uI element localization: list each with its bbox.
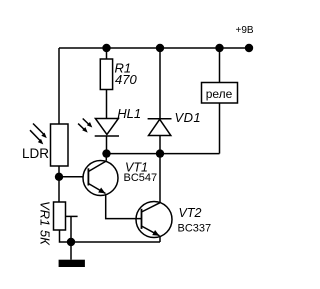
transistor VT2 collector stroke [142,203,161,212]
transistor VT1 emitter stroke [88,184,105,194]
wire mid horizontal node line [107,153,220,155]
wire VT1 emitter to VT2 base [106,195,142,219]
wire relay branch from rail [219,48,221,83]
junction dot rail relay [215,44,223,52]
wire ground stub [70,242,72,260]
LED HL1 triangle [95,119,118,135]
photoresistor LDR body [51,124,69,166]
transistor VT1 circle [83,161,118,196]
LED HL1 arrowhead 2 [82,127,88,133]
svg-text:BC547: BC547 [124,172,158,184]
LED HL1 light arrow 2 [78,124,84,130]
LDR arrowhead 1 [41,133,47,139]
LDR light arrow 1 [33,124,44,135]
svg-text:BC337: BC337 [178,222,212,234]
wire LDR bottom to junction [58,166,60,202]
transistor VT2 base bar [141,209,143,229]
wire relay bottom to node line [219,103,221,154]
LED HL1 cathode bar [95,135,119,137]
svg-text:HL1: HL1 [117,106,141,121]
junction dot rail R1 [102,44,110,52]
junction dot LDR/VR1/base node [55,173,63,181]
junction dot ground node [67,238,75,246]
wire VT1 base wire [59,176,84,178]
svg-text:VT2: VT2 [179,206,202,220]
resistor R1 [100,59,112,90]
LED HL1 arrowhead 1 [87,122,93,128]
transistor VT1 base bar [87,168,89,185]
svg-text:реле: реле [206,87,233,101]
diode VD1 cathode bar [148,118,172,120]
svg-text:LDR: LDR [22,146,49,161]
wire R1 to HL1 [106,90,108,119]
transistor VT2 emitter arrowhead [152,230,159,236]
LDR light arrow 2 [30,130,40,140]
ground symbol bar [59,260,85,267]
relay K1 box [202,83,238,104]
wire VT1 collector up [105,154,107,161]
wire VD1 branch from rail [159,48,161,119]
wire VR1 bottom to ground rail [60,230,161,242]
wire HL1 cathode down to node [106,136,108,154]
wire node to VT2 collector [159,154,161,203]
svg-text:VR1 5К: VR1 5К [38,201,53,246]
transistor VT2 circle [136,202,172,238]
svg-text:VD1: VD1 [175,110,202,125]
variable resistor VR1 body [54,202,66,230]
wire VT2 emitter to bottom wire [159,237,161,243]
wire left branch down to LDR [58,48,60,124]
svg-text:470: 470 [115,72,137,87]
junction dot HL1 node [102,149,110,157]
transistor VT1 emitter arrowhead [98,188,105,194]
diode VD1 triangle [149,119,171,135]
wire R1 branch from rail [106,48,108,59]
wire top rail +9V [59,47,249,49]
junction dot VD1 node [156,149,164,157]
transistor VT2 emitter stroke [142,226,160,236]
wire VD1 anode to node [159,136,161,154]
junction dot rail VD1 [156,44,164,52]
transistor VT1 collector stroke [88,161,106,172]
variable resistor VR1 tap [66,215,78,217]
LDR arrowhead 2 [38,139,44,145]
LED HL1 light arrow 1 [83,119,89,125]
junction dot rail end +9V [245,44,253,52]
svg-text:+9В: +9В [236,25,254,36]
